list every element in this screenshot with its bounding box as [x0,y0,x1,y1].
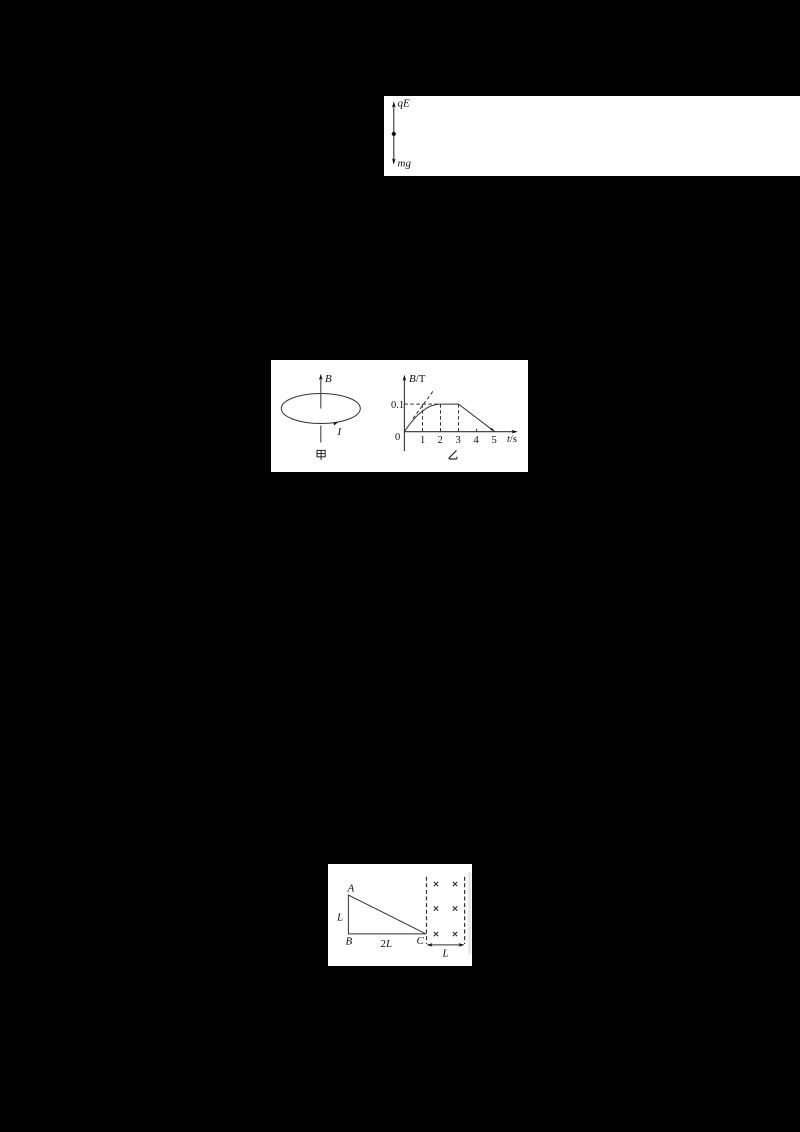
arrowhead up [392,101,396,107]
dashed vertical t=1 [421,404,423,432]
svg-text:3: 3 [456,435,461,446]
svg-text:B: B [325,373,332,385]
panel 3: triangle loop entering field [328,864,472,966]
field boundary dashed right [464,877,466,944]
current loop ellipse [281,394,360,424]
svg-text:t/s: t/s [507,434,517,445]
x-axis [404,431,514,433]
svg-text:L: L [336,912,343,924]
panel 2: loop + B-t graph [271,360,528,472]
svg-text:4: 4 [474,435,480,446]
B axis line lower [320,426,322,443]
arrowhead down [392,158,396,164]
force arrow qE up and mg down [393,105,395,163]
dashed vertical t=3 [458,404,460,432]
dashed 0.1 level [404,403,440,405]
svg-text:I: I [337,426,343,438]
ticks [422,429,476,432]
triangle ABC [348,895,426,934]
B(t) curve [404,404,494,432]
B axis line upper [320,378,322,409]
charge dot [392,132,396,136]
svg-text:A: A [347,883,355,895]
end arrowhead at t=5 [490,428,494,432]
field crosses [434,882,457,936]
svg-text:mg: mg [398,158,412,170]
svg-text:2: 2 [438,435,443,446]
svg-text:1: 1 [420,435,425,446]
svg-text:B/T: B/T [409,373,426,385]
panel 1: force diagram qE / mg [384,96,800,176]
faint scrollbar strip [468,872,471,954]
svg-text:B: B [346,936,353,948]
dashed tangent line [413,389,434,418]
svg-text:L: L [442,948,449,960]
current arrowhead on loop [333,422,338,425]
svg-text:5: 5 [492,435,497,446]
B arrowhead [319,374,323,380]
svg-text:0.1: 0.1 [391,400,404,411]
y-axis [403,378,405,451]
field boundary dashed left [426,877,428,944]
svg-text:2L: 2L [381,938,393,950]
width dimension arrow [428,944,464,946]
caption jia (甲) [317,450,325,460]
dashed vertical t=2 [440,404,442,432]
svg-text:C: C [417,935,425,947]
svg-text:0: 0 [395,432,400,443]
svg-text:qE: qE [398,98,411,110]
caption yi (乙) [449,450,457,459]
